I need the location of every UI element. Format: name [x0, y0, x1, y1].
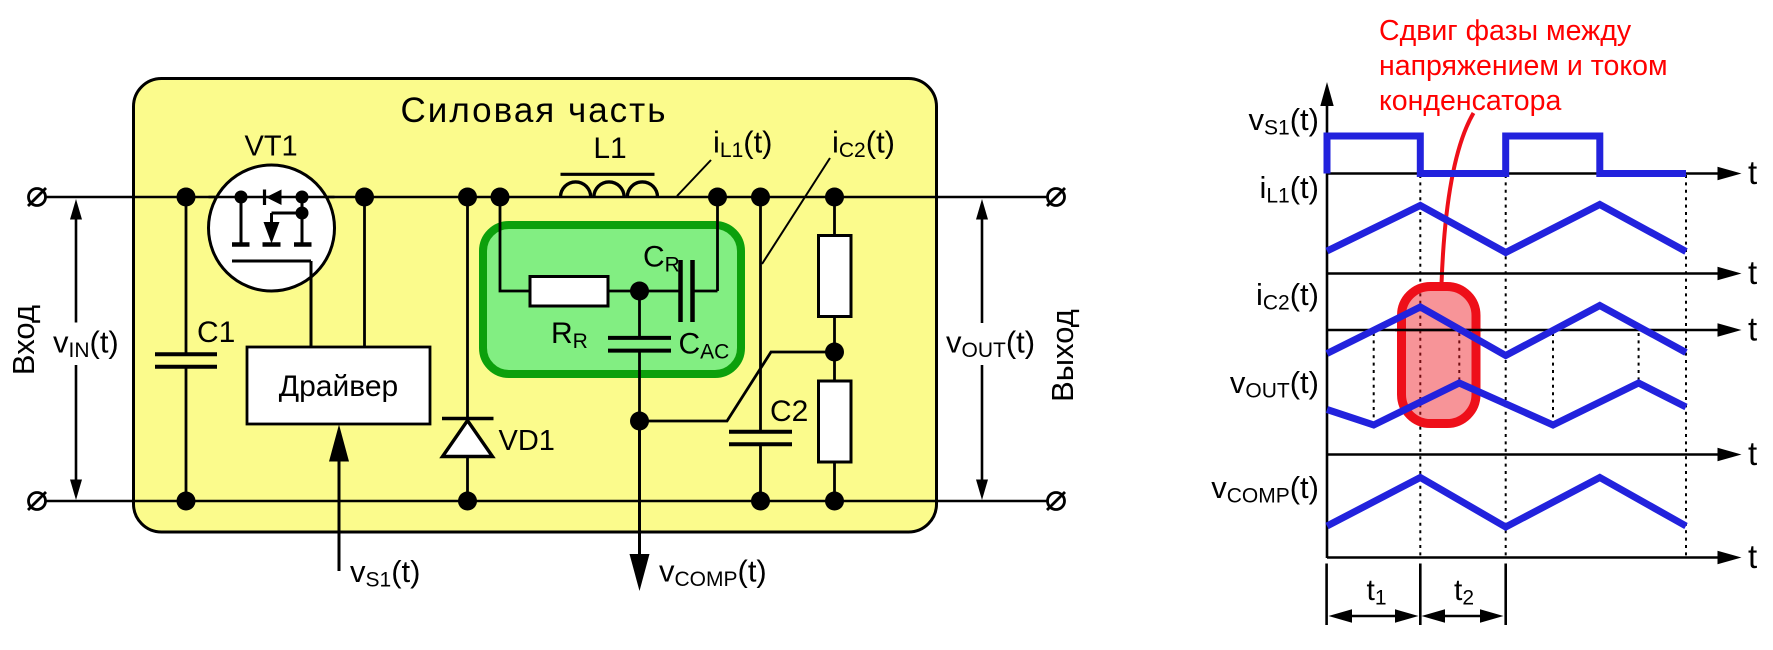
wire RR to node [608, 290, 680, 293]
svg-text:Драйвер: Драйвер [279, 370, 398, 403]
arrow vOUT measure [946, 199, 1035, 500]
tick t0 [1325, 564, 1328, 626]
node B CAC feedback junction [630, 412, 649, 431]
svg-text:vOUT(t): vOUT(t) [946, 325, 1035, 363]
resistor divider top [819, 197, 852, 381]
svg-text:iC2(t): iC2(t) [1256, 277, 1319, 315]
svg-text:vIN(t): vIN(t) [53, 325, 119, 363]
red annotation text [1379, 15, 1668, 117]
svg-text:VD1: VD1 [499, 425, 555, 457]
label iL1 with pointer [677, 125, 773, 197]
svg-text:vS1(t): vS1(t) [1249, 102, 1319, 140]
dimension arrow t2 [1422, 574, 1504, 623]
node VD1 top [458, 188, 477, 207]
node driver supply [355, 188, 374, 207]
wire bottom rail [46, 500, 1047, 503]
diode VD1 [442, 197, 555, 501]
red pointer line [1442, 113, 1474, 284]
tick t2 [1504, 564, 1507, 626]
svg-text:vCOMP(t): vCOMP(t) [1211, 470, 1319, 508]
waveform iC2 triangle [1327, 306, 1686, 356]
axis t iL1 [1327, 254, 1757, 291]
svg-text:t: t [1748, 538, 1757, 575]
wire top rail [46, 196, 1047, 199]
svg-text:vS1(t): vS1(t) [350, 554, 420, 592]
capacitor C2 [729, 197, 808, 501]
node VD1 bottom [458, 492, 477, 511]
svg-text:C1: C1 [197, 316, 235, 349]
svg-text:Вход: Вход [6, 305, 41, 375]
dotted line vOUT peak 2 [1638, 333, 1640, 382]
svg-text:Силовая часть: Силовая часть [401, 91, 668, 130]
inductor L1 [561, 132, 658, 197]
waveform iL1 triangle [1327, 205, 1686, 253]
dotted line vOUT valley 1 [1373, 333, 1375, 424]
svg-text:t: t [1748, 154, 1757, 191]
wire rail into green block [500, 197, 530, 291]
node divider midpoint [825, 343, 844, 362]
axis t vCOMP [1327, 538, 1757, 575]
terminal input top [28, 188, 46, 206]
node divider top [825, 188, 844, 207]
label iC2 with pointer [762, 125, 895, 265]
terminal input bottom [28, 492, 46, 510]
svg-text:vOUT(t): vOUT(t) [1230, 365, 1319, 403]
arrow vIN measure [53, 199, 119, 500]
dotted gridline x t1 [1419, 175, 1421, 557]
resistor RR [530, 277, 608, 354]
axis vertical [1320, 82, 1333, 558]
svg-text:iL1(t): iL1(t) [1259, 170, 1319, 208]
capacitor CAC [608, 291, 729, 421]
arrow vCOMP output [630, 421, 767, 591]
node A RR CR CAC junction [630, 282, 649, 301]
svg-text:t2: t2 [1454, 574, 1474, 610]
dotted gridline x t2 [1505, 175, 1507, 557]
power stage yellow block [134, 79, 937, 533]
axis iC2 overlay on blob [1395, 329, 1482, 332]
node C2 bottom [751, 492, 770, 511]
dotted line vOUT peak 1 [1458, 333, 1460, 382]
terminal output bottom [1047, 492, 1065, 510]
svg-text:t: t [1748, 435, 1757, 472]
node CR top [708, 188, 727, 207]
waveform vOUT triangle [1327, 383, 1686, 425]
transistor VT1 [209, 131, 335, 292]
node C2 top [751, 188, 770, 207]
svg-text:t1: t1 [1367, 574, 1387, 610]
node ripple net top [491, 188, 510, 207]
svg-text:L1: L1 [593, 132, 626, 165]
svg-text:VT1: VT1 [245, 131, 298, 163]
tick t1 [1419, 564, 1422, 626]
driver box [247, 347, 430, 424]
wire rail to driver [363, 197, 366, 347]
terminal output top [1047, 188, 1065, 206]
arrow vS1 input [329, 425, 420, 592]
node C1 bottom [177, 492, 196, 511]
waveform vCOMP triangle [1327, 478, 1686, 528]
svg-text:напряжением и током: напряжением и током [1379, 50, 1668, 82]
node C1 top [177, 188, 196, 207]
axis t vOUT [1327, 435, 1757, 472]
svg-text:C2: C2 [770, 395, 808, 428]
svg-text:конденсатора: конденсатора [1379, 85, 1562, 117]
green ripple network block [483, 225, 741, 374]
svg-text:Сдвиг фазы между: Сдвиг фазы между [1379, 15, 1632, 47]
waveform vS1 square [1327, 136, 1686, 174]
axis t iC2 [1327, 311, 1757, 348]
svg-text:t: t [1748, 254, 1757, 291]
red phase highlight blob [1402, 287, 1477, 424]
svg-text:Выход: Выход [1045, 309, 1080, 402]
node divider bottom [825, 492, 844, 511]
capacitor C1 [155, 197, 235, 501]
dotted line vOUT valley 2 [1552, 333, 1554, 424]
dotted gridline x end [1685, 175, 1687, 557]
dimension arrow t1 [1329, 574, 1419, 623]
svg-text:t: t [1748, 311, 1757, 348]
wire feedback from divider to CAC node [640, 352, 835, 421]
resistor divider bottom [819, 381, 852, 501]
capacitor CR [643, 197, 718, 322]
svg-text:vCOMP(t): vCOMP(t) [659, 554, 767, 592]
wire gate to driver [310, 261, 313, 347]
axis t vS1 [1327, 154, 1757, 191]
